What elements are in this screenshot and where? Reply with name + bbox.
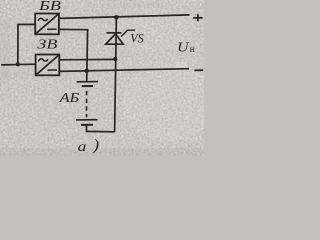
wire: branch up to rectifier БВ input [18,24,35,64]
thyristor VS triangle [106,34,124,44]
rectifier U2 diagonal [36,55,59,75]
battery АБ top long plate [77,81,98,83]
svg-text:а: а [78,140,87,155]
wire: + bus from БВ to right edge [59,15,190,19]
wire: thyristor branch vertical, + bus to bottom corner [115,17,117,132]
rectifier U1 БВ box [35,14,59,35]
rectifier U2 ЗВ box [36,55,60,76]
svg-text:VS: VS [130,31,143,45]
battery АБ dashed cell link [86,91,88,118]
node: thyristor top junction on + bus [114,15,118,19]
paper background [0,0,204,156]
minus terminal mark [194,69,203,71]
battery АБ bottom short plate [81,124,93,126]
node: battery tap junction on - bus [85,69,89,73]
svg-text:н: н [190,45,195,55]
svg-text:БВ: БВ [38,0,61,13]
svg-text:U: U [177,41,189,56]
thyristor VS gate lead [121,30,135,36]
rectifier U1 diagonal [36,14,59,34]
wire: - bus from ЗВ bottom output to right edge [59,69,189,72]
rectifier U1 DC dash [47,28,56,30]
rectifier U2 DC dash [48,69,57,71]
wire: battery negative return [87,125,115,132]
battery АБ bottom long plate [76,119,98,121]
wire: ЗВ output to thyristor branch [59,58,116,60]
paper blotches [176,62,187,68]
svg-text:ного п: ного п [2,70,28,81]
svg-text:ЗВ: ЗВ [37,37,57,52]
node: input tee junction [16,62,20,66]
svg-text:АБ: АБ [58,90,79,105]
rectifier U2 AC tilde [38,59,48,62]
svg-text:ват: ват [150,112,167,123]
node: thyristor bottom junction [113,57,117,61]
plus terminal mark [193,17,202,19]
wire: БВ minus output over to battery branch [59,29,88,81]
wire: left AC input to rectifier ЗВ [1,63,35,66]
svg-text:): ) [92,137,99,154]
battery АБ top short plate [82,85,93,87]
thyristor VS cathode bar [106,32,121,34]
svg-text:авлен сто: авлен сто [120,0,163,11]
rectifier U1 AC tilde [38,18,48,21]
